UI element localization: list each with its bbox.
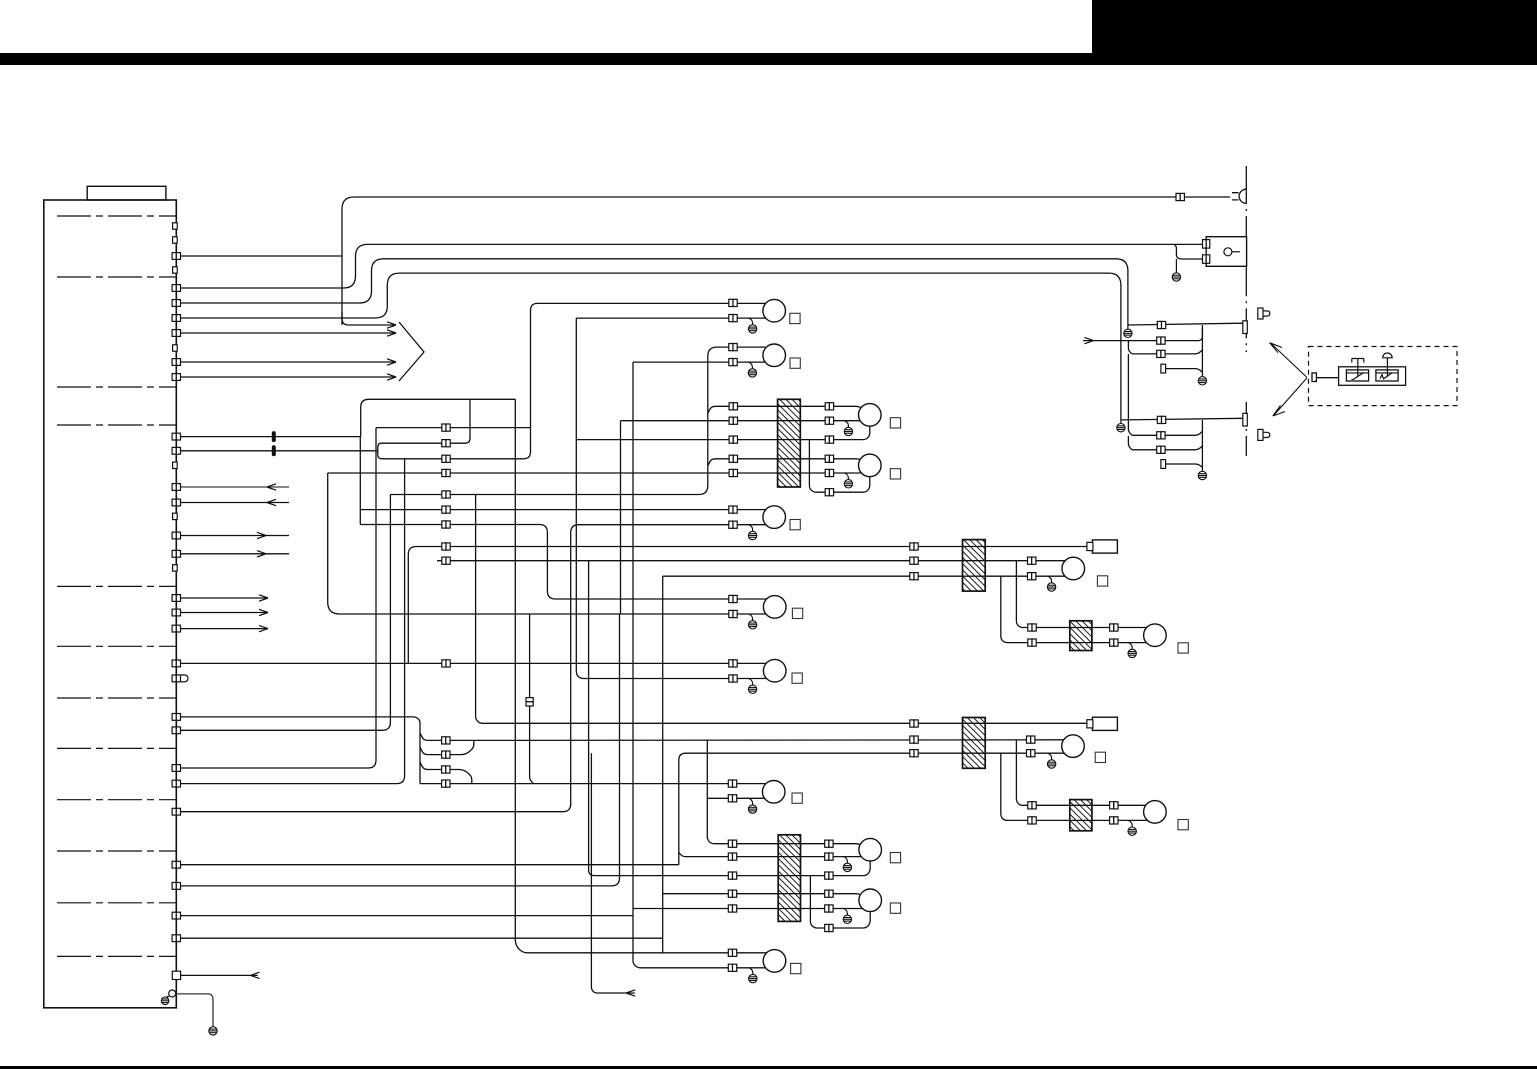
wire rowD2: [1166, 464, 1203, 467]
wire CB3 row3 drop: [810, 875, 870, 928]
connector CB1r4R: [825, 455, 833, 462]
connector horn feed: [1176, 193, 1184, 200]
label square L5: [790, 520, 800, 530]
lamp LD: [763, 950, 786, 973]
pointer arrow lower: [1273, 378, 1307, 416]
ground stub CB3r2: [843, 857, 847, 864]
bulkhead connector CB5 (hatched): [1070, 800, 1092, 831]
ECU stub pin y226: [173, 223, 178, 229]
relay connector lower: [1203, 255, 1210, 263]
wire rowA2 ground stub: [1120, 420, 1122, 424]
wire rowC 353: [1132, 350, 1202, 354]
ECU pin y730.3: [172, 727, 180, 734]
connector row509: [442, 506, 450, 513]
ground stub M3: [1048, 753, 1052, 760]
lamp L2: [763, 344, 786, 367]
ECU pin y915.6: [172, 912, 180, 919]
wire fan row740: [420, 733, 446, 740]
wire serpentine mid drop: [359, 437, 361, 525]
lamp LU: [859, 838, 882, 861]
wire fan row769 merge: [420, 762, 472, 784]
ground stub sub1: [1128, 643, 1132, 650]
connector CB1r5R: [825, 469, 833, 476]
ground stub L5: [749, 525, 753, 532]
relay connector upper: [1203, 240, 1210, 249]
connector row443: [442, 440, 450, 447]
connector bnd rowB2: [1157, 432, 1165, 439]
ECU pin y598: [172, 595, 180, 602]
control unit box: [44, 200, 177, 1008]
connector fan783: [442, 780, 450, 787]
wire drop to sub2 bottom: [1001, 753, 1148, 820]
lamp L3: [859, 404, 882, 427]
wire pin256 stub: [181, 255, 343, 257]
wire pin767 riser: [181, 428, 377, 768]
connector g2 row576: [910, 573, 918, 580]
lamp LC: [762, 781, 785, 804]
page header black title block: [1092, 0, 1537, 65]
connector L2 top: [729, 344, 737, 351]
connector CB3r5R: [825, 905, 833, 912]
connector bnd rowA2: [1157, 416, 1165, 423]
ECU pin y377: [172, 374, 180, 381]
connector L5 top: [729, 506, 737, 513]
detail dashed box: [1309, 347, 1458, 406]
wire pin288 to relay: [181, 244, 1203, 288]
wire pin783 riser: [181, 459, 405, 784]
ECU pin y318: [172, 315, 180, 322]
wire pin451 splice run: [181, 450, 378, 452]
connector sub2 top: [1028, 802, 1036, 809]
wire CB1 row5: [328, 472, 862, 474]
connector sub1R bot: [1110, 639, 1118, 646]
wire pin377 arrow: [181, 376, 397, 378]
wire row458 h3 to lamp1 feed: [378, 303, 766, 458]
wire row509 from serpentine: [360, 509, 766, 511]
component F2 pin: [1087, 720, 1093, 728]
wire pin886 riser: [181, 614, 620, 886]
ECU pin y487: [172, 484, 180, 491]
ECU pin y436.6: [172, 433, 180, 440]
wire lamp1-to-lampB vertical: [576, 318, 766, 678]
switch assembly box: [1339, 367, 1406, 386]
connector CB1r1L: [729, 403, 737, 410]
connector m3 row739: [1027, 736, 1035, 743]
bulkhead connector CB2b (hatched): [1070, 621, 1092, 651]
lamp L4: [859, 454, 882, 477]
label square L1: [790, 313, 800, 323]
wire pin938 run: [181, 937, 663, 939]
boundary pin upper: [1243, 321, 1248, 334]
wire rowA ground stub: [1127, 325, 1129, 329]
off-page chevron: [399, 322, 424, 381]
control unit internal section dividers (dash-dot): [57, 216, 176, 956]
ECU pin y303: [172, 300, 180, 307]
wire drop to sub1 bottom: [1001, 576, 1147, 642]
lamp M3: [1062, 735, 1085, 758]
connector L1 bot: [729, 315, 737, 322]
ECU stub pin y516.4: [173, 513, 178, 519]
switch cell right: [1376, 370, 1398, 381]
wire CB3 row4: [663, 894, 862, 896]
wire vert1128 rowC2: [1128, 436, 1132, 450]
ECU pin y362: [172, 359, 180, 366]
control unit top tab: [87, 186, 166, 200]
label square M4: [1178, 820, 1188, 830]
connector bnd rowB: [1157, 337, 1165, 344]
label square L4: [890, 469, 900, 479]
connector L5 bot: [729, 521, 737, 528]
connector LC top: [728, 780, 736, 787]
wire pin553 arrow out: [181, 553, 290, 555]
lamp M4: [1144, 801, 1167, 824]
wire serpentine up: [361, 399, 516, 436]
wire CB1 row1: [708, 406, 862, 413]
ECU stub pin y567.9: [173, 565, 178, 571]
ground stub CB1r2: [844, 421, 848, 428]
wire row439 to lamp3 bottom: [576, 426, 870, 439]
wire fan row754 merge: [420, 741, 474, 755]
connector row458: [442, 455, 450, 462]
ground stub sub2: [1128, 820, 1132, 827]
relay box: [1206, 237, 1246, 267]
ground stub LC: [749, 798, 753, 805]
wire serpentine down to lampD: [515, 399, 766, 953]
wire rowC2: [1132, 446, 1202, 450]
connector LD top: [728, 949, 736, 956]
ECU pin y783.6: [172, 780, 180, 787]
connector sub2R top: [1110, 802, 1118, 809]
wire row546 to fuse F1: [408, 547, 1088, 664]
bulkhead connector CB2 (hatched): [963, 540, 986, 592]
component F1 pin: [1087, 542, 1093, 550]
ground stub LB: [749, 679, 753, 686]
component fuse box F2: [1092, 717, 1117, 730]
wire block3 row3 feed: [589, 561, 871, 876]
splice S2: [272, 445, 276, 456]
ground V2 lower: [1198, 471, 1206, 479]
connector CB3r2R: [825, 853, 833, 860]
bulkhead connector CB1 (hatched): [778, 399, 801, 487]
switch symbol right (sensor stem): [1383, 353, 1393, 377]
connector row473: [442, 469, 450, 476]
switch cell right contact bar: [1376, 372, 1398, 374]
ground rowA2: [1117, 424, 1125, 432]
ground stub CB3r5: [843, 909, 847, 916]
ECU pin y768: [172, 765, 180, 772]
ground relay: [1172, 273, 1180, 281]
switch blade right: [1380, 373, 1392, 379]
ECU pin y450.8: [172, 447, 180, 454]
label square L2: [790, 358, 800, 368]
connector g2 row546: [910, 543, 918, 550]
ground stub M1: [1048, 576, 1052, 583]
page header thin bar: [0, 53, 1092, 65]
wire riser to CB3 row2: [679, 852, 862, 856]
wire row420 drop: [620, 421, 622, 614]
wire pin362 arrow: [181, 361, 397, 363]
ground stub CB1r5: [844, 473, 848, 480]
ground case lead: [209, 1027, 217, 1035]
connector bnd rowC2: [1157, 446, 1165, 453]
ECU pin y553.8: [172, 550, 180, 557]
connector CB1r1R: [825, 403, 833, 410]
connector CB3r4L: [728, 890, 736, 897]
wire row341 branch: [1128, 341, 1132, 354]
horn symbol: [1232, 189, 1246, 203]
ECU pin y288: [172, 285, 180, 292]
ECU pin y535.5: [172, 532, 180, 539]
connector CB3r1L: [728, 840, 736, 847]
wire pin318 bus: [181, 273, 1121, 420]
wire pin975 arrow: [181, 974, 258, 976]
wire pin598 arrow out: [181, 597, 269, 599]
wire CB1 row4: [708, 459, 862, 466]
connector CB3r4R: [825, 890, 833, 897]
wire pin487 arrow in: [181, 486, 290, 488]
wire lampA bottom row: [328, 473, 767, 614]
component fuse box F1: [1092, 540, 1117, 553]
label square LA: [792, 608, 802, 618]
connector sub1R top: [1110, 624, 1118, 631]
label square L3: [890, 418, 900, 428]
pointer arrow upper: [1270, 343, 1307, 378]
connector CB1r3L: [729, 436, 737, 443]
ECU pin y716.9: [172, 714, 180, 721]
wire pin730 riser: [181, 495, 391, 731]
connector CB1r2R: [825, 417, 833, 424]
connector CB3r1R: [825, 840, 833, 847]
vertical connector lampC feed: [526, 698, 533, 706]
connector row494: [442, 491, 450, 498]
ECU pin y612.5: [172, 609, 180, 616]
lamp L5: [763, 506, 786, 529]
connector row560: [442, 557, 450, 564]
ground stub case: [165, 996, 169, 999]
ECU stub pin y348: [173, 345, 178, 351]
connector m1 row560: [1028, 557, 1036, 564]
wire pin436 splice run: [181, 436, 361, 438]
wire pin502 arrow in: [181, 502, 290, 504]
bulkhead connector CB3 (hatched): [778, 835, 800, 922]
relay lamp symbol: [1224, 248, 1232, 256]
ground case: [161, 997, 169, 1005]
connector row524: [442, 521, 450, 528]
ground rowA: [1124, 329, 1132, 337]
lamp LA: [763, 596, 786, 619]
wire rowD: [1166, 369, 1203, 373]
label square LC: [792, 793, 802, 803]
wire row576 to block2: [663, 575, 1065, 577]
detached male pin upper: [1258, 308, 1270, 319]
ground stub LD: [749, 968, 753, 975]
wire pin811 to lamp5 bottom: [181, 525, 766, 812]
connector L1 top: [729, 299, 737, 306]
single connector bnd rowD2: [1161, 460, 1166, 469]
wire V2 lower: [1201, 420, 1203, 471]
connector g2 row560: [910, 557, 918, 564]
switch cell left contact bar: [1346, 372, 1368, 374]
connector LA bot: [729, 610, 737, 617]
wire row740 to group2 lamp: [446, 739, 1064, 742]
wire arrow-out bottom: [591, 753, 634, 993]
wire lampC feed vertical: [530, 614, 534, 784]
connector CB3r3L: [728, 872, 736, 879]
ground stub L1: [749, 318, 753, 325]
ECU pin y678.4: [172, 675, 180, 682]
wire group2 top row: [476, 495, 1088, 724]
switch cell left: [1346, 370, 1368, 381]
connector LB bot: [729, 675, 737, 682]
ECU pin y333: [172, 330, 180, 337]
connector row663: [442, 660, 450, 667]
wire row524 tap: [360, 525, 766, 600]
wire lamp2 bottom long vertical: [633, 362, 766, 968]
connector row546: [442, 543, 450, 550]
connector bnd rowC: [1157, 350, 1165, 357]
wire vert1128 lower: [1128, 354, 1132, 435]
connector sub1 bot: [1028, 639, 1036, 646]
connector sub1 top: [1028, 624, 1036, 631]
connector CB1r3R: [825, 436, 833, 443]
connector g2 row739: [910, 736, 918, 743]
detached pin at pin678: [181, 675, 188, 682]
ECU pin y864.7: [172, 861, 180, 868]
connector sub2R bot: [1110, 817, 1118, 824]
ground stub L2: [748, 362, 752, 369]
splice S1: [272, 431, 276, 442]
connector fan769: [442, 766, 450, 773]
body boundary line (dash-dot): [1245, 166, 1247, 456]
label square LD: [791, 963, 801, 973]
label square M2: [1178, 643, 1188, 653]
label square LL: [890, 903, 900, 913]
wire horn feed: [342, 197, 1230, 325]
wire drop to sub2 top: [1016, 740, 1145, 806]
wire relay branch: [1174, 244, 1202, 259]
wire lamp1 bottom row: [576, 317, 766, 319]
connector fan754: [442, 751, 450, 758]
connector m1 row576: [1028, 573, 1036, 580]
connector sub2 bot: [1028, 817, 1036, 824]
connector CB1r2L: [729, 417, 737, 424]
wire lamp2 bottom row: [633, 361, 766, 363]
wire row560 to lampM1: [437, 560, 1065, 562]
connector LC bot: [728, 795, 736, 802]
wire pin333 arrow: [181, 332, 397, 334]
wire row798 tap: [707, 797, 765, 799]
wire V2 upper: [1201, 325, 1203, 376]
wire arrow-in row341: [1083, 329, 1202, 341]
wire CB1 row3 drop: [809, 440, 869, 493]
ECU pin y663.4: [172, 660, 180, 667]
wire CB3 row5: [633, 908, 862, 910]
connector LB top: [729, 660, 737, 667]
connector CB3r3R: [825, 872, 833, 879]
wire row494 to lamp2 top: [390, 347, 766, 494]
lamp LL: [859, 889, 882, 912]
lamp L1: [763, 299, 786, 322]
label square LB: [792, 673, 802, 683]
wire pin716 fan feed: [181, 717, 421, 784]
wire drop to sub1 top: [1016, 561, 1146, 628]
ECU pin y628.6: [172, 625, 180, 632]
wire pin303 bus: [181, 259, 1128, 325]
wire row443: [378, 399, 470, 451]
connector CB3r2L: [728, 853, 736, 860]
switch blade left: [1352, 373, 1364, 379]
connector L2 bot: [729, 359, 737, 366]
detail wire: [1317, 377, 1339, 379]
detached male pin lower: [1258, 429, 1270, 440]
wire chevron feed: [342, 312, 396, 325]
ECU pin y885.9: [172, 883, 180, 890]
switch symbol left (timer stem): [1352, 359, 1364, 377]
wire pin663 to lampB: [181, 662, 767, 664]
wire rowA: [1128, 323, 1243, 325]
ECU stub pin y240: [173, 237, 178, 243]
wire row427 to lamp1 top: [376, 427, 531, 429]
connector m3 row753: [1027, 750, 1035, 757]
wire case ground lead: [176, 994, 213, 1027]
wire lampM1-gnd long vertical: [662, 576, 664, 953]
wire rowA2: [1121, 418, 1243, 420]
connector CB3r5L: [728, 905, 736, 912]
label square M1: [1097, 576, 1107, 586]
ECU pin y502.5: [172, 499, 180, 506]
connector LA top: [729, 595, 737, 602]
connector LD bot: [728, 964, 736, 971]
ground stub LA: [749, 614, 753, 621]
wire group2 bottom row riser: [679, 753, 1064, 865]
bulkhead connector CB4 (hatched): [963, 718, 986, 769]
wire pin915 run: [181, 915, 634, 917]
lamp M2: [1144, 624, 1167, 647]
label square LU: [890, 853, 900, 863]
ECU pin y938.2: [172, 935, 180, 942]
connector fan740: [442, 737, 450, 744]
wire pin863 run: [181, 864, 679, 866]
ECU pin y811.7: [172, 808, 180, 815]
ECU stub pin y465.3: [173, 462, 178, 468]
single connector bnd rowD: [1161, 364, 1166, 373]
connector CB1r4L: [729, 455, 737, 462]
wire pin612 arrow out: [181, 612, 269, 614]
connector g2 row724: [910, 720, 918, 727]
page footer rule: [0, 1066, 1537, 1069]
ECU pin y256: [172, 253, 180, 260]
connector bnd rowA: [1157, 321, 1165, 328]
wire row420 to lamp3: [621, 420, 861, 422]
wire pin535 arrow out: [181, 535, 290, 537]
ECU square pin 975: [172, 971, 180, 979]
detail pin: [1312, 373, 1316, 382]
connector g2 row753: [910, 750, 918, 757]
wire rowB2: [1132, 431, 1202, 435]
wire CB3 row1 riser: [707, 740, 862, 846]
ground V2 upper: [1198, 377, 1206, 385]
boundary pin lower: [1243, 413, 1248, 426]
wire relay ground stub: [1175, 259, 1177, 273]
wire pin628 arrow out: [181, 628, 269, 630]
connector CB1r5L: [729, 469, 737, 476]
terminal circle at case: [169, 990, 176, 997]
connector CB1r6R: [825, 489, 833, 496]
wire fan row783 to lampC: [420, 783, 765, 785]
lamp LB: [763, 659, 786, 682]
label square M3: [1095, 752, 1105, 762]
connector row427: [442, 424, 450, 431]
